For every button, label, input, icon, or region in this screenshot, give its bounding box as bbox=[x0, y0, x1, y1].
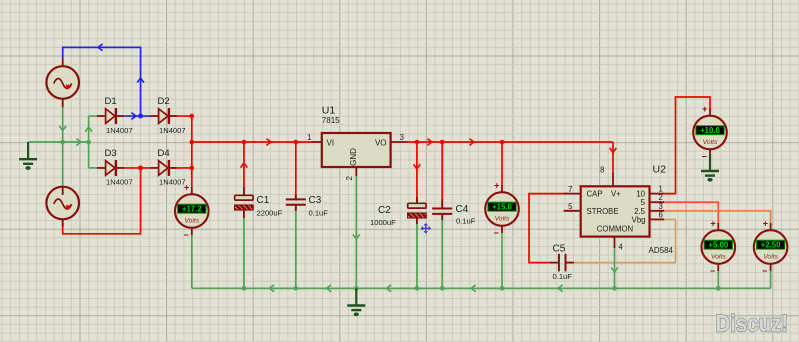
wire CAP to C5 bbox=[529, 194, 566, 263]
svg-text:+15.0: +15.0 bbox=[492, 203, 512, 212]
label U1 bbox=[322, 105, 340, 125]
svg-text:Discuz!: Discuz! bbox=[716, 310, 789, 337]
wire source2 to bridge bbox=[63, 168, 141, 234]
svg-text:C1: C1 bbox=[257, 195, 270, 206]
wire green source net bbox=[28, 99, 97, 187]
svg-text:D4: D4 bbox=[158, 148, 170, 159]
wire U1 pin2 down bbox=[353, 167, 360, 288]
voltmeter +15.0 bbox=[485, 181, 519, 238]
svg-text:GND: GND bbox=[349, 148, 358, 166]
wire C2 branch bbox=[414, 142, 421, 288]
wire pin1 to meter10 bbox=[664, 97, 710, 194]
svg-text:VO: VO bbox=[375, 138, 387, 147]
svg-text:U2: U2 bbox=[653, 163, 667, 175]
node bridge junctions bbox=[138, 114, 194, 171]
wire meter5 down bbox=[717, 271, 719, 288]
wire pin2 to meter5 bbox=[664, 202, 718, 223]
capacitor C5 bbox=[550, 254, 575, 272]
svg-text:D3: D3 bbox=[105, 148, 117, 159]
label U2 bbox=[649, 163, 674, 255]
AC source V2 bbox=[46, 187, 79, 227]
label C1 bbox=[257, 195, 283, 218]
label U2 pins bbox=[568, 166, 663, 252]
svg-text:+10.0: +10.0 bbox=[700, 126, 720, 135]
wire blue top loop bbox=[63, 44, 151, 120]
label C5 bbox=[553, 244, 573, 282]
node blue junction bbox=[138, 114, 143, 119]
origin marker bbox=[421, 224, 430, 233]
wire C3 branch bbox=[295, 142, 297, 288]
wire bridge output bus bbox=[124, 116, 192, 168]
svg-text:+: + bbox=[494, 181, 499, 191]
svg-text:D2: D2 bbox=[158, 96, 170, 107]
svg-text:Volts: Volts bbox=[711, 253, 726, 260]
label D3 bbox=[105, 148, 133, 187]
svg-text:V+: V+ bbox=[611, 190, 621, 199]
svg-text:VI: VI bbox=[327, 138, 335, 147]
svg-text:+: + bbox=[184, 183, 189, 193]
wire C5 to Vbg bbox=[567, 219, 676, 262]
voltmeter +17.2 bbox=[175, 183, 209, 240]
label D2 bbox=[158, 96, 186, 135]
svg-text:Volts: Volts bbox=[184, 217, 199, 224]
svg-text:1N4007: 1N4007 bbox=[106, 178, 133, 187]
svg-text:1N4007: 1N4007 bbox=[106, 126, 133, 135]
svg-text:−: − bbox=[702, 151, 707, 161]
svg-text:5: 5 bbox=[568, 202, 573, 211]
svg-text:CAP: CAP bbox=[587, 190, 603, 199]
wire meter15 feed bbox=[501, 142, 503, 186]
label U1 pins bbox=[307, 133, 404, 181]
svg-text:+17.2: +17.2 bbox=[182, 205, 202, 214]
ground middle bbox=[347, 288, 365, 316]
regulator U1 7815 bbox=[312, 133, 408, 167]
wire meter17 down bbox=[191, 234, 193, 288]
wire C1 branch bbox=[241, 142, 248, 288]
svg-text:C5: C5 bbox=[553, 244, 566, 255]
capacitor C2 bbox=[408, 197, 427, 224]
svg-text:U1: U1 bbox=[322, 105, 336, 117]
wire meter15 down bbox=[501, 233, 503, 288]
svg-text:Volts: Volts bbox=[763, 253, 778, 260]
wire rail from VO bbox=[408, 139, 617, 173]
wire U2 pin4 down bbox=[611, 237, 618, 289]
ground right bbox=[701, 154, 719, 182]
voltmeter +5.00 bbox=[702, 219, 736, 276]
svg-text:1000uF: 1000uF bbox=[370, 218, 396, 227]
svg-text:−: − bbox=[183, 230, 188, 240]
voltmeter +2.50 bbox=[754, 219, 788, 276]
wire pin3 to meter25 bbox=[664, 211, 770, 224]
svg-text:1: 1 bbox=[307, 133, 312, 142]
svg-text:C3: C3 bbox=[309, 195, 322, 206]
wire meter25 down bbox=[770, 271, 772, 288]
svg-text:+: + bbox=[710, 219, 715, 229]
watermark Discuz bbox=[716, 310, 789, 337]
node source junction bbox=[60, 140, 91, 145]
capacitor C4 bbox=[432, 199, 452, 220]
svg-text:7815: 7815 bbox=[322, 116, 340, 125]
svg-text:−: − bbox=[710, 266, 715, 276]
reference U2 AD584 bbox=[564, 173, 665, 237]
label D4 bbox=[158, 148, 186, 187]
svg-text:+2.50: +2.50 bbox=[761, 241, 781, 250]
diode D4 bbox=[150, 160, 177, 176]
svg-text:1N4007: 1N4007 bbox=[159, 178, 186, 187]
label C2 bbox=[370, 205, 396, 227]
svg-text:+5.00: +5.00 bbox=[708, 241, 728, 250]
svg-text:+: + bbox=[702, 104, 707, 114]
svg-text:6: 6 bbox=[659, 210, 663, 219]
svg-text:Volts: Volts bbox=[703, 139, 718, 146]
svg-text:AD584: AD584 bbox=[649, 246, 674, 255]
wire meter17 feed bbox=[191, 168, 193, 187]
label C3 bbox=[309, 195, 329, 218]
svg-text:8: 8 bbox=[600, 166, 604, 175]
svg-text:3: 3 bbox=[400, 133, 405, 142]
svg-text:D1: D1 bbox=[105, 96, 117, 107]
wire bottom rail bbox=[192, 285, 771, 292]
svg-text:4: 4 bbox=[619, 243, 624, 252]
svg-text:0.1uF: 0.1uF bbox=[456, 217, 476, 226]
capacitor C1 bbox=[235, 187, 254, 218]
svg-text:+: + bbox=[763, 219, 768, 229]
svg-text:C4: C4 bbox=[456, 204, 469, 215]
label D1 bbox=[105, 96, 133, 135]
node rail dots left bbox=[242, 140, 299, 145]
AC source V1 bbox=[46, 58, 79, 107]
node bottom rail dots bbox=[242, 286, 721, 291]
svg-text:C2: C2 bbox=[378, 205, 391, 216]
svg-text:−: − bbox=[762, 266, 767, 276]
svg-text:Volts: Volts bbox=[495, 215, 510, 222]
svg-text:0.1uF: 0.1uF bbox=[309, 209, 329, 218]
label C4 bbox=[456, 204, 476, 226]
svg-text:2200uF: 2200uF bbox=[257, 209, 283, 218]
diode D3 bbox=[97, 160, 124, 176]
wire main rail to VI bbox=[192, 139, 312, 146]
voltmeter +10.0 bbox=[693, 104, 727, 161]
svg-text:STROBE: STROBE bbox=[587, 207, 619, 216]
svg-text:7: 7 bbox=[568, 185, 572, 194]
wire C4 branch bbox=[441, 142, 443, 288]
svg-text:0.1uF: 0.1uF bbox=[553, 272, 573, 281]
svg-text:1N4007: 1N4007 bbox=[159, 126, 186, 135]
diode D2 bbox=[150, 108, 177, 124]
capacitor C3 bbox=[286, 194, 306, 211]
ground left bbox=[19, 142, 37, 170]
svg-text:COMMON: COMMON bbox=[597, 225, 633, 234]
svg-text:−: − bbox=[494, 228, 499, 238]
node rail dots right bbox=[415, 140, 505, 145]
svg-text:Vbg: Vbg bbox=[632, 215, 646, 224]
svg-text:2: 2 bbox=[345, 176, 354, 181]
diode D1 bbox=[97, 108, 124, 124]
